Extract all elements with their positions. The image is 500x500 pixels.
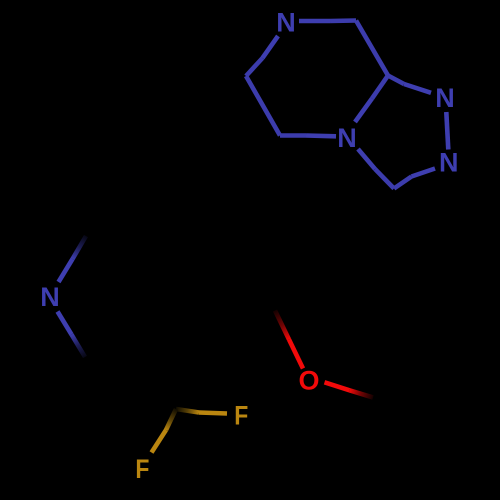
wire C-F2 near half [152,430,167,453]
svg-text:N: N [435,83,455,113]
wire N7-C8 far half [330,18,356,23]
wire N4-C8a near half [355,99,372,123]
svg-text:O: O [298,366,319,396]
wire O-Cring far half fading [275,311,289,340]
svg-text:F: F [135,454,149,484]
svg-text:N: N [337,123,357,153]
wire C3-N4 far half [375,169,394,189]
wire N4-C8a far half [372,76,388,99]
wire N1-N2 [446,112,448,150]
svg-text:N: N [439,148,459,178]
wire O-Cring near half [289,340,303,369]
wire C-F1 far half fading [176,409,199,413]
wire N4-C5 near half [306,133,336,138]
wire Npy-C6py near half [58,312,72,335]
wire Npy-C6py far half fading [72,335,86,358]
wire C8-C8a [356,21,388,76]
wire C-F1 near half [199,413,227,414]
wire C6-N7 far half [246,58,263,76]
wire Npy-C2 far half fading [73,236,87,259]
wire N2-C3 near half [412,169,436,177]
wire O-CH3 far half fading [350,390,374,397]
wire Npy-C2 near half [59,259,73,282]
wire N4-C5 far half [280,133,306,138]
svg-text:N: N [276,8,296,38]
wire C5-C6 [246,76,280,136]
wire C8a-N1 near half [404,84,431,93]
wire C-F2 far half fading [166,409,176,430]
wire C8a-N1 far half [388,76,404,85]
wire C3-N4 near half [358,149,375,169]
wire O-CH3 near half [325,382,350,390]
wire N2-C3 far half [394,177,412,189]
svg-text:N: N [40,282,60,312]
wire N7-C8 near half [299,19,330,24]
wire C6-N7 near half [263,36,279,58]
svg-text:F: F [234,401,248,431]
